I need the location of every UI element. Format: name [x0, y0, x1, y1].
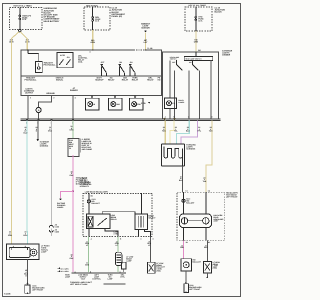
lamp box HI	[85, 96, 99, 110]
wire relay out2	[105, 229, 118, 237]
switch S3 head	[129, 61, 135, 76]
svg-text:AUTO: AUTO	[60, 54, 66, 57]
wire label grn1 low	[85, 262, 90, 267]
wire label 340 ORN right	[25, 39, 30, 44]
text underhood junction block	[44, 7, 61, 23]
wire LT BLU long	[26, 121, 29, 245]
headlamp capsule	[180, 214, 212, 228]
fuse F1 HDM LPS 15A	[19, 14, 32, 21]
dimmer lamp out	[169, 109, 171, 119]
text high beam headlamps	[226, 192, 238, 199]
caption	[4, 293, 11, 296]
module off-page arrows	[58, 267, 70, 273]
splice S131	[87, 198, 100, 205]
svg-text:NEAR BATTERY: NEAR BATTERY	[44, 20, 60, 23]
wire fuse2 feed	[92, 7, 94, 30]
svg-text:TL 1B: TL 1B	[147, 47, 153, 50]
pin tick sensor	[145, 47, 153, 50]
lowbeam bottom pins	[91, 238, 155, 241]
headlamp bulbs	[181, 218, 209, 224]
resistor box R1	[135, 214, 148, 229]
bottom labels	[24, 87, 78, 95]
wire to lamp1	[91, 96, 93, 99]
module pin labels	[75, 270, 122, 273]
svg-text:C100: C100	[55, 225, 59, 228]
wire label 340 ORN left	[9, 39, 14, 44]
svg-text:LEFT SIDE OF DASH: LEFT SIDE OF DASH	[70, 283, 88, 286]
text C100	[55, 223, 59, 233]
fuse F3 HTD 10A	[195, 15, 204, 22]
text interior lamps dimming	[40, 141, 50, 148]
wire pin to conn	[28, 96, 77, 119]
wire R1 out1	[137, 230, 139, 237]
svg-text:LEFT FRONT: LEFT FRONT	[226, 196, 238, 199]
switch S1 off	[101, 61, 107, 76]
wire CYAN p3	[177, 121, 190, 144]
text exterior lights dimmer	[222, 50, 233, 57]
text forward lamps conn	[186, 143, 196, 150]
svg-text:C2: C2	[69, 147, 71, 150]
svg-text:SIGNAL: SIGNAL	[56, 79, 64, 82]
svg-text:BLOCK: BLOCK	[215, 11, 223, 14]
label low beam headlamps	[85, 191, 109, 194]
svg-text:LEFT FRONT: LEFT FRONT	[189, 288, 201, 291]
text dimmer lamp	[178, 99, 185, 104]
wire label 740 ORN	[194, 38, 199, 43]
svg-text:PHOTOCELL: PHOTOCELL	[25, 79, 38, 82]
wire YEL p2	[170, 121, 174, 144]
text mid lowbeam	[114, 231, 120, 236]
wire ORN right to switch	[26, 39, 28, 50]
label HOT IN RUN	[86, 4, 98, 7]
box hb2	[204, 261, 212, 273]
ground G100 box right	[184, 284, 189, 293]
wire below park lamp	[27, 260, 29, 285]
wire PNK long	[72, 155, 74, 272]
wire YEL from fuse3	[195, 31, 197, 52]
text LF low beam	[126, 256, 133, 263]
pin tick dimmer top	[198, 49, 200, 52]
svg-text:B1: B1	[91, 194, 93, 197]
note S339 arrow	[141, 102, 150, 105]
connector pin labels	[26, 116, 213, 125]
wire label grn1	[85, 240, 90, 247]
svg-text:GRN: GRN	[85, 263, 90, 266]
photocell box	[35, 62, 42, 73]
text twilight photocell	[44, 62, 57, 67]
svg-text:M 14 GRN: M 14 GRN	[61, 270, 70, 273]
module small box	[122, 262, 127, 272]
wire hb1	[183, 192, 185, 214]
ref box P100	[68, 139, 79, 157]
wire dimmer pin	[72, 96, 74, 119]
wire label pnk hb	[180, 244, 184, 249]
wire label blk park	[24, 269, 28, 277]
svg-text:RELAY: RELAY	[108, 79, 115, 82]
dimmer wire 3	[199, 71, 201, 119]
label HOT AT ALL TIMES right	[189, 4, 207, 7]
divider line	[21, 75, 161, 77]
wire GRN lamp2	[117, 237, 119, 253]
wire BLK lamp3	[150, 237, 152, 263]
junction dot A	[164, 118, 166, 120]
wire label 640 ORN	[91, 39, 96, 44]
svg-text:SENSOR: SENSOR	[141, 27, 150, 30]
wire label orn bottom	[8, 231, 13, 238]
svg-text:BALLAST: BALLAST	[92, 202, 101, 205]
wire ORN left long	[10, 39, 12, 245]
wire fuse3 feed	[195, 7, 197, 31]
wire label blu bottom	[24, 231, 28, 238]
wire label blk hb2	[204, 244, 208, 249]
wire label 448D	[35, 126, 37, 133]
wire PUR p4	[181, 121, 198, 144]
wire ORN from fuse2	[92, 30, 94, 50]
dimmer lamp feed	[169, 61, 171, 99]
text LF park lamp	[41, 244, 50, 253]
splice hb	[182, 198, 195, 205]
svg-text:HOT IN RUN: HOT IN RUN	[86, 4, 98, 7]
pin B top	[27, 50, 29, 54]
svg-text:AND CHIME: AND CHIME	[82, 148, 93, 151]
forward lamps connector box	[162, 144, 185, 166]
wire label pink low	[70, 253, 74, 260]
junction dots left	[26, 119, 74, 121]
text low beam relay	[111, 214, 118, 221]
lamp box DIM	[109, 96, 123, 110]
wire BLK hb2	[206, 240, 208, 261]
dimmer switch 1	[172, 60, 182, 70]
relay K1 contacts	[97, 218, 107, 226]
small box right low	[148, 262, 155, 273]
svg-text:LAMP: LAMP	[65, 276, 71, 279]
switch S2 park	[119, 61, 125, 76]
svg-text:10 A: 10 A	[198, 19, 203, 22]
wire label 448 top	[24, 126, 28, 134]
terminal labels left	[25, 77, 64, 82]
module top line	[72, 272, 127, 274]
svg-text:BALLAST: BALLAST	[186, 201, 195, 204]
text block right of pink	[76, 177, 90, 186]
svg-text:(HID): (HID)	[213, 267, 218, 270]
socket component	[115, 252, 121, 272]
svg-text:10 A: 10 A	[95, 20, 100, 23]
wire label blk3	[147, 240, 151, 247]
photocell wire	[28, 50, 39, 62]
wire hb2	[205, 192, 207, 214]
text right junction block	[215, 6, 226, 13]
wire to relay	[88, 194, 90, 215]
svg-text:OUTPUT: OUTPUT	[25, 92, 34, 95]
svg-text:B2: B2	[208, 241, 210, 244]
grommet C100	[19, 30, 21, 32]
underhood fuse block dashed box	[10, 8, 43, 30]
module under line	[104, 283, 126, 285]
svg-text:PHOTOCELL: PHOTOCELL	[44, 64, 57, 67]
wire label p1	[162, 126, 166, 133]
wire label below conn	[179, 175, 183, 182]
ballast box	[181, 259, 192, 271]
wire TAN p1	[164, 121, 166, 144]
svg-text:HOT AT ALL TIMES: HOT AT ALL TIMES	[189, 4, 207, 7]
svg-text:GRA: GRA	[48, 130, 53, 133]
wire label right tan	[209, 126, 213, 133]
svg-text:HOOKUP: HOOKUP	[95, 79, 104, 82]
text G100 right	[189, 284, 202, 291]
svg-text:RELAY: RELAY	[122, 79, 129, 82]
svg-text:LAMP: LAMP	[41, 250, 47, 253]
dimmer inner bar	[170, 56, 213, 61]
high beam dashed box	[177, 192, 225, 240]
LF park inner	[9, 248, 37, 258]
page border frame	[3, 4, 241, 297]
IP fuse block dashed box	[84, 7, 110, 30]
wire to lamp3	[134, 96, 136, 99]
LF park pins	[10, 244, 28, 248]
dimmer wire 2	[188, 71, 190, 119]
low beam dashed box	[83, 194, 152, 237]
text beam select	[148, 215, 156, 220]
page background	[0, 0, 243, 300]
wire R1 top	[140, 194, 142, 215]
dimmer wire 4	[210, 60, 212, 119]
pink branch	[61, 191, 74, 198]
svg-text:RELAY: RELAY	[111, 218, 118, 221]
fuse F2 DRL 10A	[92, 16, 101, 23]
inline connector line upper	[21, 118, 221, 120]
svg-text:5-1308: 5-1308	[4, 293, 11, 296]
wire hb1 down	[183, 228, 185, 241]
svg-text:ASSY: ASSY	[214, 220, 220, 223]
svg-text:C230: C230	[55, 230, 59, 233]
wire label GRA	[48, 126, 53, 133]
pin tick fuse2	[89, 50, 93, 54]
wire from sensor	[145, 33, 147, 50]
svg-text:RELAY: RELAY	[147, 79, 154, 82]
dimmer wire 1	[174, 71, 176, 119]
dashed segment top edge	[134, 49, 145, 51]
text above low beam box	[80, 177, 92, 188]
wire BLK below conn	[181, 166, 183, 192]
dimmer switch box	[163, 52, 219, 119]
wire GRA	[50, 121, 52, 226]
svg-text:GROUND: GROUND	[46, 92, 55, 95]
svg-text:LAMP: LAMP	[126, 260, 132, 263]
svg-text:LAMP: LAMP	[108, 277, 114, 280]
text note bracket	[80, 138, 92, 153]
relay K1 box	[86, 214, 110, 229]
wire PNK ballast	[183, 240, 185, 258]
svg-text:OFF: OFF	[172, 61, 175, 64]
svg-text:15 A: 15 A	[22, 18, 27, 21]
svg-text:(HID): (HID)	[156, 270, 161, 273]
text IP junction block	[112, 7, 126, 18]
wire label 487	[144, 39, 149, 44]
wire label p3	[186, 126, 190, 133]
wire fuse1 feed	[19, 8, 21, 30]
svg-text:RELAY: RELAY	[132, 79, 139, 82]
svg-text:HOT AT ALL TIMES: HOT AT ALL TIMES	[14, 5, 33, 8]
svg-text:B5: B5	[198, 49, 200, 52]
arrow interior dimming	[37, 139, 40, 141]
wire ORN Y-split	[11, 32, 27, 39]
svg-text:DIMMER: DIMMER	[222, 54, 230, 57]
LF park lamp box	[7, 244, 39, 260]
sensor arrow	[144, 30, 147, 32]
label HOT AT ALL TIMES	[14, 5, 33, 8]
wire label p4	[198, 126, 202, 133]
wire GRN stub	[72, 121, 74, 139]
svg-text:LAMPS: LAMPS	[57, 206, 64, 209]
svg-text:LAMPS: LAMPS	[178, 101, 185, 104]
svg-text:ORN: ORN	[194, 40, 199, 43]
text G100 left	[32, 285, 45, 292]
wire label grn2	[115, 240, 120, 247]
svg-text:B1: B1	[186, 241, 188, 244]
headlamp switch box	[21, 50, 161, 96]
wire R1 out2	[145, 230, 151, 237]
inline connector C100 on GRA	[49, 225, 53, 236]
svg-text:BALLAST: BALLAST	[193, 260, 202, 263]
module text rows	[65, 274, 126, 287]
auto switch contents	[59, 54, 71, 65]
text right low box	[156, 262, 165, 273]
wire to lamp2	[114, 96, 116, 99]
svg-text:HARNESS: HARNESS	[186, 147, 196, 150]
relay K1 coil	[88, 216, 93, 227]
svg-text:PANEL (IP): PANEL (IP)	[112, 15, 123, 18]
text relay block	[78, 55, 88, 64]
relay link wire	[102, 212, 135, 214]
right fuse block dashed box	[185, 7, 212, 31]
svg-text:GRN: GRN	[69, 129, 74, 132]
hb2 stub	[207, 273, 209, 278]
inline connector line lower	[21, 120, 221, 122]
svg-text:DIMMING: DIMMING	[40, 145, 49, 148]
svg-text:DIM: DIM	[116, 103, 120, 106]
wire label p2	[174, 126, 178, 133]
wire TAN right jog	[206, 121, 212, 193]
wire label right tan 2	[203, 176, 207, 183]
svg-text:DIMMER: DIMMER	[70, 89, 78, 92]
pin tick lowbeam	[88, 194, 93, 198]
arrow DRL	[59, 198, 62, 200]
svg-text:ORN: ORN	[8, 234, 13, 237]
svg-text:M 14 GRN: M 14 GRN	[61, 267, 70, 270]
wire fuse3 into bar	[195, 52, 197, 57]
text halogen bulb	[214, 214, 225, 223]
wire GRN lamp1	[88, 237, 90, 273]
text below arrow	[57, 202, 66, 209]
wire label 308	[69, 125, 74, 132]
hb bottom pins	[186, 241, 210, 244]
dimmer lamp box	[165, 98, 177, 109]
svg-text:ORN: ORN	[91, 41, 96, 44]
dimmer switch 2	[189, 60, 199, 70]
terminal labels row	[95, 77, 161, 82]
svg-text:INTENSITY: INTENSITY	[80, 185, 90, 188]
wire label on pink	[70, 170, 74, 177]
wire relay out1	[88, 229, 90, 237]
ground G100 box left	[25, 285, 30, 294]
wire to ground right	[185, 271, 187, 284]
wire hb2 down	[205, 228, 207, 241]
svg-text:LEFT FRONT: LEFT FRONT	[32, 288, 44, 291]
lamp box PRK	[129, 96, 143, 110]
label high beam pins	[185, 189, 210, 192]
svg-text:CONTROL: CONTROL	[92, 277, 102, 280]
text ballast	[193, 258, 202, 263]
junction dot pink	[72, 190, 74, 192]
splice circle G	[36, 107, 41, 112]
auto switch sub-box	[57, 52, 73, 67]
wire dimming stub	[37, 121, 39, 139]
svg-text:SELECT: SELECT	[148, 216, 156, 219]
text hb2 box	[213, 261, 221, 270]
junction dot B	[174, 118, 176, 120]
text ambient light sensor	[141, 23, 151, 30]
wire ground jog	[39, 96, 52, 119]
